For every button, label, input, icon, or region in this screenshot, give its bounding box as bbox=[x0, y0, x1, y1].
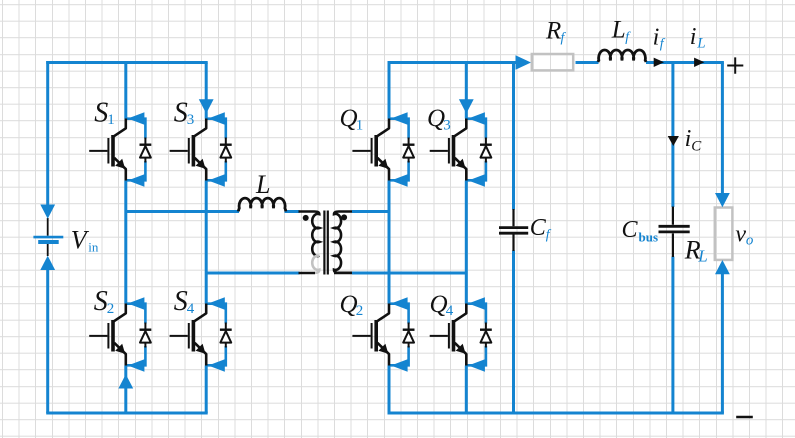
svg-text:o: o bbox=[746, 232, 754, 248]
wire: S1/S2 leg bottom bbox=[124, 366, 127, 414]
wire: Q3/Q4 leg middle bbox=[465, 181, 468, 304]
wire: top rail of S-bridge bbox=[46, 61, 208, 64]
label S1 bbox=[94, 97, 114, 128]
svg-text:L: L bbox=[611, 17, 626, 44]
label L bbox=[255, 170, 270, 199]
svg-text:2: 2 bbox=[107, 301, 115, 317]
wire: left input rail lower segment bbox=[46, 270, 49, 414]
current arrow into RL bottom bbox=[715, 260, 730, 274]
label vo bbox=[735, 221, 754, 248]
wire: S1/S2 leg top bbox=[124, 63, 127, 119]
svg-text:f: f bbox=[561, 30, 567, 45]
svg-text:i: i bbox=[653, 24, 660, 50]
label Q1 bbox=[340, 105, 364, 133]
svg-text:i: i bbox=[690, 24, 697, 50]
transistor Q3 (IGBT with antiparallel diode) bbox=[430, 112, 492, 187]
wire: Q1/Q2 leg bottom bbox=[388, 366, 391, 414]
transformer primary winding bbox=[299, 212, 320, 257]
inductor Lf bbox=[598, 50, 646, 62]
wire: Q1/Q2 leg middle bbox=[388, 181, 391, 304]
wire: output positive vertical lower bbox=[721, 274, 724, 413]
transistor S3 (IGBT with antiparallel diode) bbox=[170, 112, 232, 187]
capacitor Cbus plates bbox=[659, 226, 690, 232]
current arrow into Rf bbox=[516, 55, 532, 70]
inductor L bbox=[238, 198, 285, 211]
plus terminal bbox=[727, 57, 743, 73]
transformer secondary polarity dot bbox=[341, 214, 347, 220]
current arrow i_C on Cbus branch bbox=[668, 136, 679, 146]
resistor RL (box) bbox=[715, 208, 733, 260]
label S2 bbox=[94, 286, 114, 317]
wire: bottom rail of S-bridge bbox=[46, 412, 208, 415]
battery Vin plates bbox=[33, 236, 63, 239]
minus terminal bbox=[736, 416, 753, 419]
current arrow on S3 leg bbox=[199, 99, 214, 113]
wire: Q3/Q4 leg top bbox=[465, 63, 468, 119]
svg-text:S: S bbox=[94, 286, 108, 317]
wire: Q3/Q4 leg bottom bbox=[465, 366, 468, 414]
svg-text:V: V bbox=[71, 225, 90, 254]
label Cf bbox=[530, 215, 552, 243]
transistor Q1 (IGBT with antiparallel diode) bbox=[352, 112, 414, 187]
wire: left input rail upper segment bbox=[46, 61, 49, 207]
wire: Lf to output corner bbox=[646, 61, 724, 64]
transformer primary bottom turn (gray) bbox=[312, 256, 319, 273]
svg-text:v: v bbox=[735, 221, 746, 247]
svg-text:C: C bbox=[622, 217, 639, 243]
label Cbus bbox=[622, 217, 659, 245]
resistor Rf (box) bbox=[532, 54, 573, 70]
svg-text:1: 1 bbox=[356, 118, 364, 134]
current arrow into battery top bbox=[40, 205, 55, 219]
wire: S-bridge midpoint to inductor L bbox=[126, 210, 239, 213]
svg-text:L: L bbox=[697, 247, 707, 266]
wire: Cf leg upper bbox=[512, 63, 515, 210]
label Q3 bbox=[427, 105, 451, 133]
label RL bbox=[684, 236, 708, 266]
svg-text:S: S bbox=[174, 286, 188, 317]
svg-text:f: f bbox=[546, 228, 552, 243]
svg-text:R: R bbox=[545, 18, 561, 45]
wire: S3/S4 leg bottom bbox=[205, 366, 208, 414]
current arrow into RL top bbox=[715, 193, 730, 207]
label S4 bbox=[174, 286, 195, 317]
transistor Q2 (IGBT with antiparallel diode) bbox=[352, 297, 414, 372]
transformer secondary winding bbox=[334, 212, 352, 274]
label Rf bbox=[545, 18, 567, 46]
wire: output positive vertical upper bbox=[721, 63, 724, 194]
wire: Cbus leg lower bbox=[671, 257, 674, 414]
label iL bbox=[690, 24, 706, 52]
transformer primary polarity dot bbox=[303, 215, 309, 221]
transistor S2 (IGBT with antiparallel diode) bbox=[89, 297, 151, 372]
wire: S3/S4 leg top bbox=[205, 63, 208, 119]
svg-text:in: in bbox=[88, 239, 99, 254]
svg-text:1: 1 bbox=[107, 112, 115, 128]
label Q2 bbox=[340, 291, 364, 319]
current arrow into battery bottom bbox=[40, 256, 55, 270]
transformer primary bottom lead bbox=[299, 272, 316, 275]
wire: S3/S4 leg middle bbox=[205, 181, 208, 304]
svg-text:C: C bbox=[691, 139, 702, 155]
svg-text:3: 3 bbox=[443, 118, 451, 134]
wire: transformer secondary top to Q1/Q2 midpoint bbox=[352, 210, 389, 213]
transistor Q4 (IGBT with antiparallel diode) bbox=[430, 297, 492, 372]
svg-text:S: S bbox=[174, 97, 188, 128]
svg-text:L: L bbox=[696, 35, 705, 51]
svg-text:4: 4 bbox=[446, 303, 454, 319]
svg-text:f: f bbox=[625, 30, 631, 45]
capacitor Cf leads (black) bbox=[512, 209, 514, 251]
wire: Cbus leg upper bbox=[671, 63, 674, 208]
label if bbox=[653, 24, 666, 51]
wire: inductor L to transformer primary bbox=[285, 210, 300, 213]
transistor S4 (IGBT with antiparallel diode) bbox=[170, 297, 232, 372]
capacitor Cf plates bbox=[499, 228, 528, 234]
svg-text:C: C bbox=[530, 215, 547, 241]
svg-text:L: L bbox=[255, 170, 270, 199]
capacitor Cbus leads (black) bbox=[672, 207, 674, 258]
svg-text:3: 3 bbox=[187, 112, 195, 128]
transformer core bbox=[324, 211, 327, 275]
wire: S1/S2 leg middle bbox=[124, 181, 127, 304]
wire: transformer secondary bottom to Q3/Q4 midpoint bbox=[352, 272, 466, 275]
label Q4 bbox=[430, 291, 454, 319]
current arrow on Q3 leg bbox=[459, 99, 474, 113]
label iC bbox=[685, 126, 703, 155]
label S3 bbox=[174, 97, 194, 128]
svg-text:bus: bus bbox=[639, 230, 659, 245]
label Vin bbox=[71, 225, 99, 254]
wire: S3/S4 midpoint to transformer primary bottom bbox=[206, 272, 299, 275]
current arrow on S2 leg bottom bbox=[118, 374, 133, 388]
label Lf bbox=[611, 17, 632, 45]
battery Vin lead links (black) bbox=[47, 218, 49, 256]
transistor S1 (IGBT with antiparallel diode) bbox=[89, 112, 151, 187]
wire: top rail of Q-bridge bbox=[388, 61, 518, 64]
current arrow i_L bbox=[694, 58, 704, 67]
svg-text:f: f bbox=[660, 37, 666, 52]
wire: bottom rail of Q-bridge and output bbox=[388, 412, 724, 415]
wire: Rf to Lf bbox=[576, 61, 599, 64]
svg-text:S: S bbox=[94, 97, 108, 128]
wire: Q1/Q2 leg top bbox=[388, 63, 391, 119]
svg-text:4: 4 bbox=[187, 301, 195, 317]
wire: Cf leg lower bbox=[512, 251, 515, 414]
current arrow i_f bbox=[654, 58, 664, 67]
svg-text:2: 2 bbox=[356, 303, 364, 319]
